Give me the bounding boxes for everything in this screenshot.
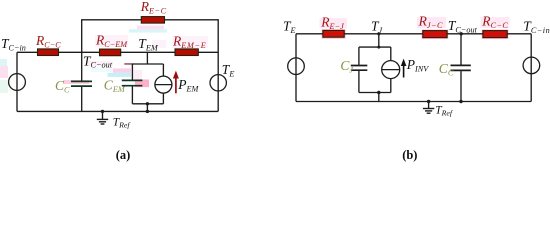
svg-text:(b): (b) — [402, 148, 417, 162]
svg-text:(a): (a) — [116, 148, 131, 162]
